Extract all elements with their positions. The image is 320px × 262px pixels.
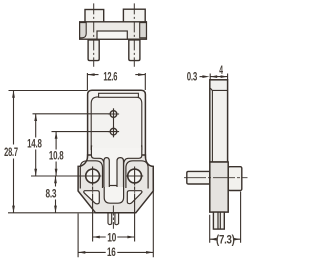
dimension 28.7 top extension: [9, 90, 88, 92]
dimension 16 left arrow: [78, 251, 85, 254]
top view left tab: [85, 10, 104, 22]
front view right hole crosshair tail: [134, 187, 136, 193]
top view right centerline: [133, 3, 135, 66]
svg-text:12.6: 12.6: [103, 72, 117, 84]
dimension 0.3 arrow: [200, 76, 204, 78]
dimension 10.8 bottom arrow: [55, 169, 58, 176]
svg-text:(7.3): (7.3): [216, 235, 235, 247]
side view bottom tab: [213, 212, 224, 229]
front view slot left tower: [104, 158, 109, 187]
dimension 4 line: [210, 76, 227, 78]
side view plate: [210, 80, 228, 162]
front view left hole: [86, 169, 100, 183]
dimension 14.8 bottom arrow: [34, 169, 37, 176]
dimension 28.7 bottom extension: [8, 212, 96, 214]
front view body inner outline: [91, 97, 142, 150]
front view base: [78, 155, 153, 213]
dimension 10.8 top arrow: [55, 132, 58, 139]
front view small hole 1 crosshair: [108, 108, 119, 119]
front view interior white funnel and window: [91, 146, 141, 203]
side view pin: [187, 171, 210, 184]
dimension 28.7 bottom arrow: [12, 206, 15, 213]
top view inner recess: [97, 31, 127, 39]
top view left centerline: [93, 3, 95, 66]
dimension 8.3 line: [55, 176, 57, 213]
dimension hole-row extension leader: [31, 175, 86, 177]
side view gray block: [210, 162, 228, 212]
dimension 10 extension lines: [93, 194, 135, 242]
dimension 28.7 line: [13, 91, 15, 213]
dimension 14.8 line: [35, 114, 37, 176]
dimension 16 extension lines: [78, 192, 153, 258]
front view right triangle cutout: [127, 191, 142, 204]
dimension 10 line: [93, 236, 135, 238]
dimension 8.3 bottom arrow: [54, 206, 57, 213]
front view base bottom edge across tab: [107, 212, 120, 214]
top view right end step: [140, 23, 147, 38]
front view left triangle cutout: [84, 191, 100, 204]
svg-text:10: 10: [107, 233, 116, 245]
top view right tab: [123, 9, 145, 22]
side view plate inner wall line: [210, 88, 227, 162]
svg-text:16: 16: [107, 247, 116, 259]
front view small hole 2 crosshair: [108, 126, 119, 137]
top view left leg: [88, 40, 99, 61]
dimension 7.3 extension lines: [210, 192, 241, 243]
dimension 12.6 extension lines: [87, 73, 145, 90]
svg-text:14.8: 14.8: [27, 139, 42, 151]
dimension 10 left arrow: [93, 236, 100, 239]
front view right hole: [128, 169, 142, 183]
front view holes connecting line: [113, 108, 115, 137]
dimension 14.8 extension leader: [33, 113, 111, 115]
dimension 12.6 left arrow: [87, 73, 94, 76]
top view bar: [80, 22, 147, 39]
front view slot bottom edge: [109, 185, 117, 187]
dimension 8.3 top arrow: [54, 176, 57, 183]
svg-text:4: 4: [219, 65, 223, 77]
front view small hole 2: [110, 128, 117, 135]
dimension 10.8 extension leader: [52, 131, 111, 133]
dimension 28.7 top arrow: [12, 91, 15, 98]
front view small hole 1: [110, 111, 117, 118]
dimension 7.3 line: [210, 238, 241, 240]
dimension 14.8 top arrow: [34, 114, 37, 121]
front view left hole crosshair: [84, 167, 101, 186]
front view bottom centerline: [112, 206, 114, 229]
top view left end step: [80, 23, 87, 38]
front view bottom tab: [108, 213, 119, 225]
svg-text:28.7: 28.7: [4, 147, 18, 159]
dimension 10.8 line: [55, 132, 57, 176]
side view bottom tab slit: [218, 212, 220, 229]
front view left hole pad contour: [80, 161, 102, 189]
front view slot right tower: [117, 158, 124, 187]
front view body outer: [88, 90, 146, 158]
top view right leg: [129, 40, 140, 61]
svg-text:8.3: 8.3: [45, 189, 56, 201]
dimension 16 line: [78, 251, 153, 253]
side view centerline: [184, 177, 248, 179]
dimension 4 left arrow: [210, 75, 217, 78]
front view left hole crosshair tail: [92, 187, 94, 193]
svg-text:0.3: 0.3: [187, 72, 197, 84]
dimension 4 extension lines: [210, 74, 227, 81]
svg-text:10.8: 10.8: [49, 151, 64, 163]
dimension 7.3 left arrow: [210, 238, 217, 241]
front view interior top mask: [92, 140, 141, 148]
dimension 7.3 right arrow: [233, 238, 240, 241]
dimension 4 right arrow: [221, 75, 228, 78]
side view right block: [228, 167, 242, 191]
front view right hole crosshair: [126, 167, 143, 186]
dimension 16 right arrow: [146, 251, 153, 254]
dimension 12.6 line: [87, 74, 145, 76]
dimension 12.6 right arrow: [138, 73, 145, 76]
front view right hole pad contour: [126, 161, 148, 189]
front view top lip: [99, 93, 139, 97]
dimension 10 right arrow: [127, 236, 134, 239]
